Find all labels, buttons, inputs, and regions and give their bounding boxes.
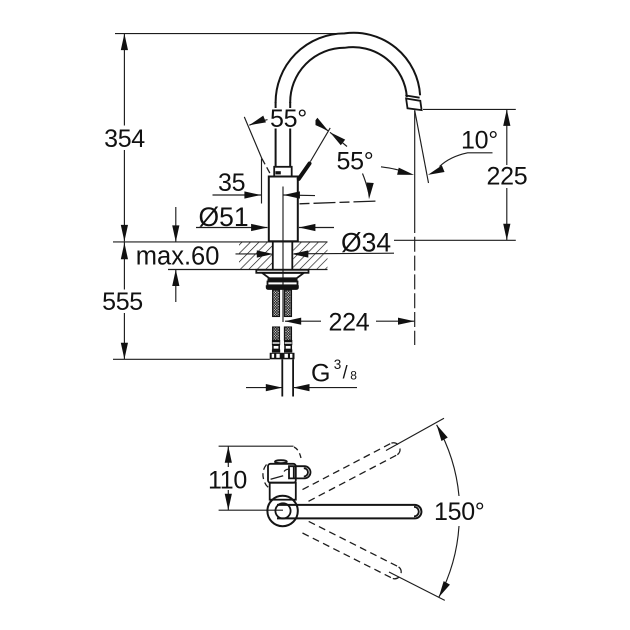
svg-text:225: 225 — [487, 163, 528, 191]
dimension 35 line left — [213, 194, 262, 196]
110 top reference line — [219, 445, 294, 447]
svg-text:10°: 10° — [461, 126, 498, 154]
spout stub inner cap — [304, 468, 308, 476]
10 deg leader — [440, 153, 493, 167]
55 deg second leader down — [363, 174, 369, 193]
label 55 deg first — [268, 108, 316, 129]
water stream 10 deg line — [415, 110, 429, 183]
svg-text:354: 354 — [104, 125, 145, 153]
55 deg arc (lever swing) — [249, 118, 328, 131]
hidden lever small curve — [284, 469, 290, 471]
svg-text:55°: 55° — [337, 147, 374, 175]
flexible hose left upper — [273, 290, 280, 317]
bottom reference line (555 datum) — [113, 358, 270, 360]
dimension 224 line — [285, 320, 321, 322]
mounting nut white band — [268, 282, 298, 286]
swivel stop line lower — [389, 572, 445, 600]
dimension 110 vertical — [227, 446, 229, 467]
tube ellipse on body top — [275, 460, 287, 463]
svg-text:224: 224 — [329, 308, 370, 336]
svg-text:G: G — [311, 360, 330, 388]
countertop top line — [113, 241, 328, 243]
spout dashed curve top view — [294, 447, 302, 461]
svg-text:55°: 55° — [270, 105, 307, 133]
svg-text:555: 555 — [102, 288, 143, 316]
stub joint line — [293, 467, 295, 479]
outlet height reference line — [423, 108, 516, 110]
55 deg second arc right — [381, 167, 405, 173]
collar below tube — [274, 167, 292, 177]
dashed handle lower position — [303, 521, 402, 578]
spout inner arc — [290, 47, 407, 103]
svg-text:3: 3 — [334, 357, 342, 372]
lever axis dash-dot line — [300, 201, 380, 204]
faucet body — [269, 177, 298, 242]
dimension G3/8 line left — [246, 387, 282, 389]
lever extension line right — [310, 128, 330, 162]
arrow 354 top — [121, 34, 128, 51]
dimension 35 line right — [283, 194, 315, 197]
countertop reference line right — [394, 239, 516, 241]
svg-text:150°: 150° — [434, 498, 485, 526]
countertop bottom line — [168, 269, 328, 271]
cone washer — [262, 273, 304, 279]
aerator body — [406, 99, 422, 111]
body lower rect top view — [270, 483, 296, 500]
lever extension line left — [244, 117, 262, 159]
dimension 225 vertical — [506, 109, 508, 165]
valve body top view — [268, 464, 296, 483]
lever base black detail — [275, 171, 280, 174]
hidden outline dashed left — [263, 465, 269, 488]
washer plate under counter — [256, 270, 308, 273]
hose end fitting left — [272, 340, 280, 353]
aerator cut line — [405, 95, 419, 97]
escutcheon circle — [267, 496, 297, 526]
spout riser tube right edge — [289, 102, 291, 167]
svg-text:35: 35 — [218, 169, 245, 197]
150 deg arc — [437, 425, 459, 496]
arrow 555 upper — [121, 243, 128, 259]
top reference line (354/555 datum) — [115, 33, 345, 35]
supply pipe right edge — [292, 359, 294, 396]
handle bar solid — [277, 505, 421, 519]
dimension d51 left — [196, 227, 268, 229]
water stream vertical reference — [414, 110, 416, 218]
spout stub outer — [289, 466, 311, 478]
arrow 354 bottom — [121, 225, 128, 242]
svg-text:/: / — [343, 363, 348, 383]
dimension d51 right — [299, 227, 334, 229]
locknut with side lobes — [266, 285, 299, 290]
lever handle (closed position, thick) — [299, 164, 310, 179]
dimension G3/8 line right — [293, 387, 357, 389]
spout riser tube left edge — [275, 102, 277, 167]
svg-text:8: 8 — [350, 369, 357, 383]
hidden dash inside body — [271, 476, 284, 479]
dimension line 354/555 vertical — [123, 34, 125, 126]
flexible hose left lower — [273, 327, 280, 340]
spout outer arc — [276, 33, 421, 103]
110 bottom reference line — [219, 509, 283, 511]
arrow 555 bottom — [121, 343, 128, 360]
escutcheon inner circle — [275, 503, 290, 518]
dashed handle upper position — [303, 443, 401, 502]
svg-text:max.60: max.60 — [136, 242, 220, 270]
flexible hose right upper — [284, 290, 291, 317]
swivel stop line upper — [386, 418, 444, 450]
countertop hatching right of shank — [293, 242, 327, 269]
body centre line — [282, 187, 284, 323]
flexible hose right lower — [284, 327, 291, 340]
connection nut band — [270, 353, 295, 360]
dimension max.60 lower arrow — [175, 270, 177, 303]
lever alternate position dashed — [262, 159, 271, 176]
handle bar inner cap — [414, 507, 419, 517]
hose end fitting right — [284, 340, 292, 353]
dimension line for d34 — [294, 252, 394, 255]
supply pipe left edge — [281, 359, 283, 396]
countertop hatching left of shank — [239, 242, 272, 269]
mounting nut dark band — [268, 278, 298, 281]
mounting shank left edge — [272, 242, 274, 270]
extension line for 35 — [261, 159, 263, 204]
svg-text:110: 110 — [208, 467, 247, 495]
dimension max.60 upper arrow — [175, 207, 177, 242]
mounting shank right edge — [291, 242, 293, 270]
